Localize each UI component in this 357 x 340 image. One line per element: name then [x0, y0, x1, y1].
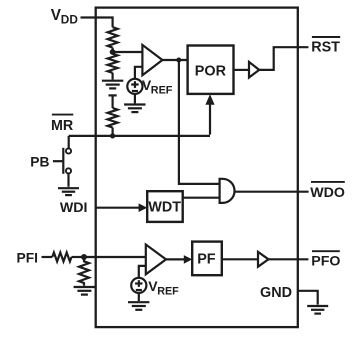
- wire GND pin to ground: [298, 291, 318, 305]
- wire WDI to WDT: [96, 207, 140, 209]
- ground (GND pin): [307, 306, 328, 314]
- pin label WDO (overline): [311, 181, 345, 183]
- pushbutton S1 actuator bar: [62, 148, 64, 174]
- junction dot R3/MR: [110, 133, 115, 138]
- wire node C to comparator U3: [84, 256, 146, 258]
- wire node B down to AND gate top input: [179, 60, 220, 184]
- ground (below R2): [102, 81, 123, 89]
- ground (below R6): [74, 287, 95, 295]
- node C junction dot: [81, 254, 87, 260]
- svg-text:DD: DD: [61, 13, 79, 27]
- ground (below V1): [124, 105, 145, 113]
- svg-text:REF: REF: [157, 286, 179, 298]
- wire AND output to WDO pin: [235, 191, 309, 193]
- svg-text:RST: RST: [311, 39, 340, 55]
- ground (below PB): [58, 188, 79, 195]
- wire U3 output to PF: [166, 258, 185, 260]
- resistor R2 (lower divider): [108, 54, 118, 73]
- IC boundary box: [96, 8, 298, 328]
- wire PF output to buffer: [222, 258, 258, 260]
- pin label MR (overline): [52, 114, 73, 116]
- svg-text:MR: MR: [51, 118, 74, 134]
- label VREF (top): [142, 77, 173, 97]
- arrowhead into POR bottom: [205, 94, 214, 105]
- wire VREF to U1 - input: [135, 67, 143, 79]
- WDT block U5: [147, 191, 183, 222]
- svg-text:PFI: PFI: [17, 251, 38, 266]
- label VREF (bottom): [148, 278, 179, 298]
- PF block U6: [192, 242, 222, 276]
- wire R3 to MR line: [111, 128, 113, 136]
- ground (below V2): [128, 302, 149, 310]
- comparator U3 (power-fail): [146, 245, 166, 275]
- resistor R6 (PFI pull-down): [79, 257, 89, 286]
- buffer B1 (RST driver): [249, 62, 259, 78]
- pushbutton S1 bottom contact: [66, 168, 71, 173]
- resistor R1 (upper divider): [108, 27, 118, 47]
- voltage source V2 VREF: [131, 278, 146, 293]
- wire R2 to ground: [111, 73, 113, 80]
- pushbutton S1 top contact: [66, 148, 71, 153]
- POR block U4: [188, 46, 234, 94]
- wire node A to comparator U1 + input: [113, 51, 143, 53]
- svg-text:PFO: PFO: [311, 253, 340, 269]
- comparator U1 (VDD monitor): [142, 45, 162, 75]
- wire MR corner down to pushbutton: [68, 136, 70, 149]
- wire R5 to node C: [72, 256, 85, 258]
- node A junction dot (divider tap): [110, 49, 116, 55]
- wire buffer B1 to RST pin: [259, 47, 308, 70]
- pin label RST (overline): [312, 36, 340, 38]
- svg-text:PF: PF: [197, 252, 216, 268]
- wire buffer B2 to PFO pin: [269, 258, 309, 260]
- buffer B2 (PFO driver): [258, 252, 269, 267]
- pin label VDD: [51, 7, 79, 27]
- wire MR riser to POR bottom: [209, 104, 211, 135]
- wire tick to R3: [111, 95, 113, 108]
- svg-text:REF: REF: [151, 85, 173, 97]
- wire POR output to buffer: [234, 69, 250, 71]
- wire MR net (horizontal run): [69, 135, 210, 137]
- svg-text:WDO: WDO: [310, 185, 345, 201]
- wire VREF2 to U3 - input: [139, 266, 146, 278]
- wire PB stub: [53, 160, 63, 162]
- arrowhead into WDT: [139, 203, 148, 212]
- resistor R5 (PFI series): [52, 253, 71, 262]
- svg-text:PB: PB: [30, 154, 49, 169]
- svg-text:GND: GND: [260, 285, 292, 301]
- wire PFI to R5: [42, 256, 53, 258]
- AND gate U2: [220, 179, 235, 203]
- voltage source V1 VREF: [127, 79, 142, 94]
- arrowhead into PF: [184, 255, 192, 264]
- svg-text:WDI: WDI: [60, 200, 88, 216]
- resistor R3 (MR pull-up): [108, 108, 118, 128]
- wire WDT output to AND gate: [183, 197, 220, 199]
- node B junction dot (U1 output branch): [176, 58, 181, 63]
- wire U1 output to POR: [162, 59, 187, 61]
- wire R1 to node A: [111, 48, 113, 54]
- wire VDD pin into divider: [81, 18, 113, 28]
- wire V1 to ground: [134, 94, 136, 103]
- svg-text:POR: POR: [195, 63, 227, 79]
- wire V2 to ground: [138, 293, 140, 301]
- VDD rail tick above R3: [109, 94, 117, 96]
- wire bottom contact to ground: [67, 174, 69, 187]
- svg-text:WDT: WDT: [148, 200, 181, 216]
- pin label PFO (overline): [312, 250, 340, 252]
